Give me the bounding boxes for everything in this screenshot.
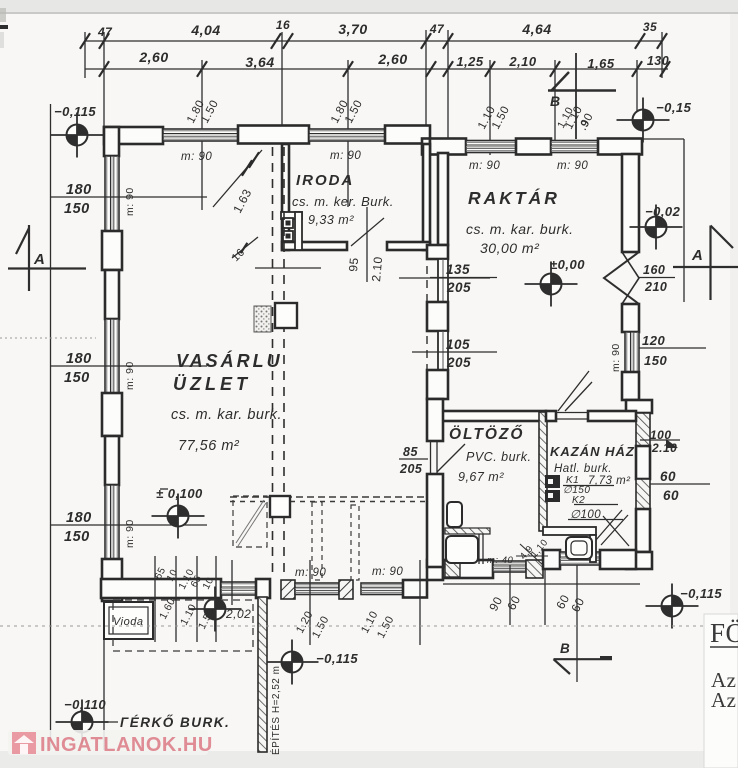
svg-text:m: 90: m: 90 [610,343,622,372]
svg-text:180: 180 [66,182,92,198]
svg-text:m: 90: m: 90 [469,160,500,172]
svg-text:205: 205 [399,462,423,476]
svg-text:cs. m. kar. burk.: cs. m. kar. burk. [171,407,282,423]
svg-text:INGATLANOK.HU: INGATLANOK.HU [40,734,213,756]
svg-text:cs. m. kar. burk.: cs. m. kar. burk. [466,221,574,237]
svg-text:m: 90: m: 90 [124,519,136,548]
svg-text:B: B [550,93,561,109]
svg-text:−0,115: −0,115 [316,651,358,666]
svg-text:150: 150 [64,370,90,386]
svg-text:± 0,100: ± 0,100 [156,486,203,501]
svg-text:m: 90: m: 90 [124,361,136,390]
svg-text:77,56 m²: 77,56 m² [178,438,240,454]
svg-text:47: 47 [429,22,445,36]
svg-text:150: 150 [644,353,667,368]
svg-text:120: 120 [642,333,665,348]
svg-text:47: 47 [97,25,113,39]
svg-text:−0,115: −0,115 [54,104,96,119]
svg-text:±0,00: ±0,00 [550,257,585,272]
svg-text:3,64: 3,64 [245,54,274,70]
svg-text:130: 130 [647,54,669,68]
svg-text:85: 85 [403,445,418,459]
svg-text:180: 180 [66,351,92,367]
svg-text:m: 90: m: 90 [181,151,212,163]
svg-text:PVC. burk.: PVC. burk. [466,450,531,464]
svg-text:m: 90: m: 90 [330,150,361,162]
svg-text:m: 90: m: 90 [295,567,326,579]
svg-text:−0,15: −0,15 [656,100,692,115]
svg-text:30,00 m²: 30,00 m² [480,240,540,256]
svg-text:1,25: 1,25 [456,54,484,69]
svg-text:2,02: 2,02 [225,607,251,621]
svg-text:9,67 m²: 9,67 m² [458,470,504,484]
svg-text:2,60: 2,60 [377,51,407,67]
svg-text:210: 210 [644,280,667,294]
svg-text:95: 95 [346,257,361,273]
svg-text:4,04: 4,04 [190,22,220,38]
svg-text:FÖ: FÖ [710,618,738,648]
svg-text:A: A [691,247,703,264]
svg-text:135: 135 [446,262,470,277]
svg-text:Az: Az [711,688,737,712]
svg-text:205: 205 [446,355,471,370]
svg-text:60: 60 [660,469,676,484]
svg-text:ÉPÍTÉS H=2,52 m: ÉPÍTÉS H=2,52 m [269,666,282,755]
svg-text:160: 160 [643,263,665,277]
svg-text:35: 35 [643,20,657,34]
svg-text:180: 180 [66,510,92,526]
svg-text:A: A [33,251,45,268]
svg-text:m: 90: m: 90 [557,160,588,172]
svg-text:Hatl. burk.: Hatl. burk. [554,463,612,475]
svg-text:ΓÉRKŐ BURK.: ΓÉRKŐ BURK. [120,715,230,730]
svg-text:−0,115: −0,115 [680,586,722,601]
svg-text:60: 60 [663,488,679,503]
svg-text:VASÁRLU: VASÁRLU [176,350,283,371]
svg-text:m: 40: m: 40 [487,555,513,566]
svg-text:m: 90: m: 90 [372,566,403,578]
svg-text:cs. m. ker. Burk.: cs. m. ker. Burk. [292,194,394,209]
svg-text:16: 16 [276,18,290,32]
svg-text:KAZÁN HÁZ: KAZÁN HÁZ [550,444,635,459]
svg-text:2,10: 2,10 [508,54,537,69]
svg-text:205: 205 [446,280,471,295]
svg-text:ÜZLET: ÜZLET [173,374,251,394]
svg-text:150: 150 [64,201,90,217]
svg-text:150: 150 [64,529,90,545]
svg-text:IRODA: IRODA [296,172,354,189]
svg-text:3,70: 3,70 [338,21,367,37]
svg-text:2,60: 2,60 [138,49,168,65]
svg-text:−0,02: −0,02 [645,204,681,219]
svg-text:m: 90: m: 90 [124,187,136,216]
svg-text:2.10: 2.10 [369,256,385,282]
svg-text:B: B [560,641,570,656]
svg-text:ÖLTÖZŐ: ÖLTÖZŐ [449,425,524,443]
svg-text:9,33 m²: 9,33 m² [308,213,354,227]
svg-text:1,65: 1,65 [587,56,615,71]
svg-text:4,64: 4,64 [521,21,551,37]
svg-text:−0,110: −0,110 [64,697,106,712]
svg-text:105: 105 [446,337,470,352]
svg-text:RAKTÁR: RAKTÁR [468,187,560,208]
